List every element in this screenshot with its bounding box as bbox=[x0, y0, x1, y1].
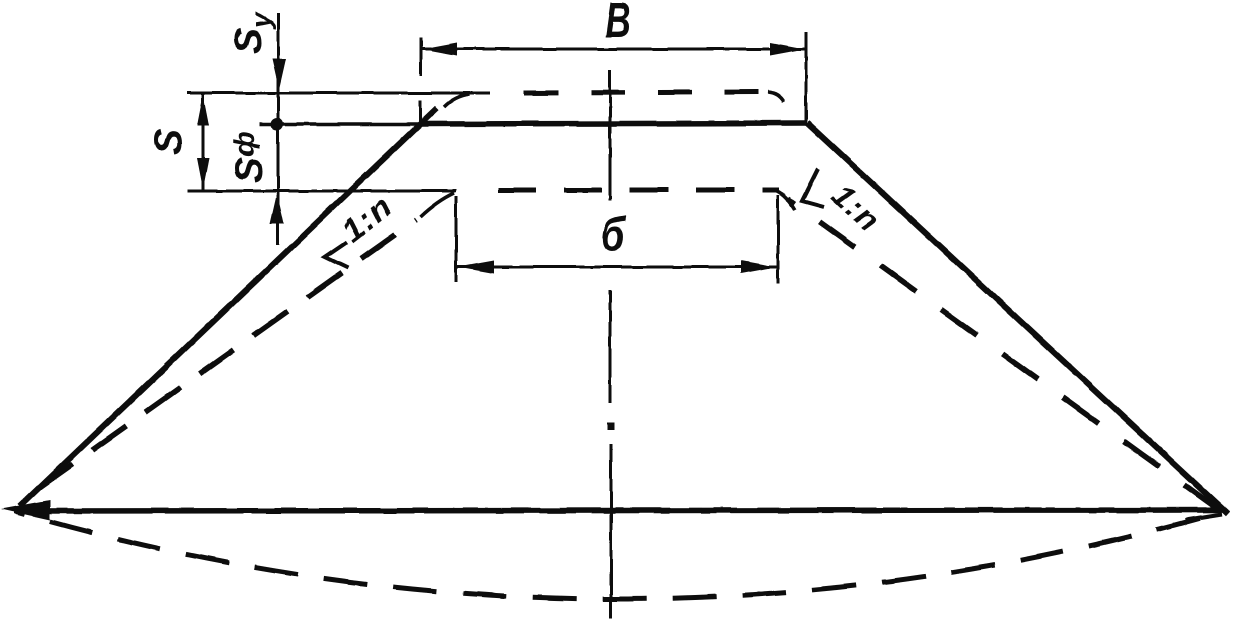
left settled slope dashed bbox=[22, 220, 416, 500]
left slope bbox=[20, 108, 437, 506]
centerline dot bbox=[607, 423, 614, 430]
right settled slope dashed bbox=[788, 199, 1222, 512]
B dimension extension right bbox=[805, 32, 808, 122]
base line bbox=[14, 510, 1224, 511]
left slope less-than symbol bbox=[325, 242, 348, 268]
B arrow left bbox=[422, 43, 457, 56]
Sy Sf vertical line bbox=[277, 13, 280, 245]
settled level line dashes bbox=[498, 188, 779, 193]
settled level right hook bbox=[777, 191, 795, 210]
settled level left hook bbox=[420, 193, 454, 217]
S dimension line bbox=[202, 94, 205, 190]
settlement sag curve dashed bbox=[16, 512, 1222, 599]
svg-text:B: B bbox=[605, 0, 631, 48]
svg-text:б: б bbox=[601, 209, 626, 262]
centerline segment upper bbox=[609, 70, 612, 200]
design level line dashes bbox=[524, 92, 770, 93]
Sf arrow up bbox=[270, 193, 284, 224]
design level line solid part bbox=[187, 92, 490, 95]
settled level line solid part bbox=[187, 190, 456, 193]
design level left hook bbox=[444, 94, 470, 107]
b dimension extension left bbox=[455, 196, 458, 282]
svg-text:Sф: Sф bbox=[228, 131, 271, 183]
svg-text:Sу: Sу bbox=[227, 11, 276, 54]
B dimension extension left upper bbox=[420, 38, 423, 76]
B arrow right bbox=[770, 43, 805, 56]
b dimension extension right bbox=[777, 195, 780, 284]
S arrow up bbox=[197, 95, 209, 126]
centerline segment middle bbox=[609, 290, 612, 403]
B dimension extension left lower bbox=[419, 100, 422, 122]
right slope less-than symbol bbox=[802, 169, 824, 207]
right slope bbox=[807, 123, 1228, 514]
b dimension line bbox=[456, 266, 778, 269]
svg-text:S: S bbox=[147, 129, 190, 155]
right toe overshoot bbox=[1185, 514, 1222, 520]
design level right hook bbox=[768, 92, 784, 102]
Sy arrow down bbox=[272, 59, 286, 90]
shoulder dot bbox=[271, 118, 284, 131]
b arrow left bbox=[458, 261, 494, 274]
crest extension line bbox=[259, 122, 424, 126]
S arrow down bbox=[197, 158, 209, 189]
left toe wedge bbox=[1, 500, 50, 520]
centerline segment lower bbox=[610, 444, 613, 618]
b arrow right bbox=[741, 261, 776, 274]
crest line bbox=[420, 123, 807, 124]
B dimension line bbox=[421, 48, 806, 51]
